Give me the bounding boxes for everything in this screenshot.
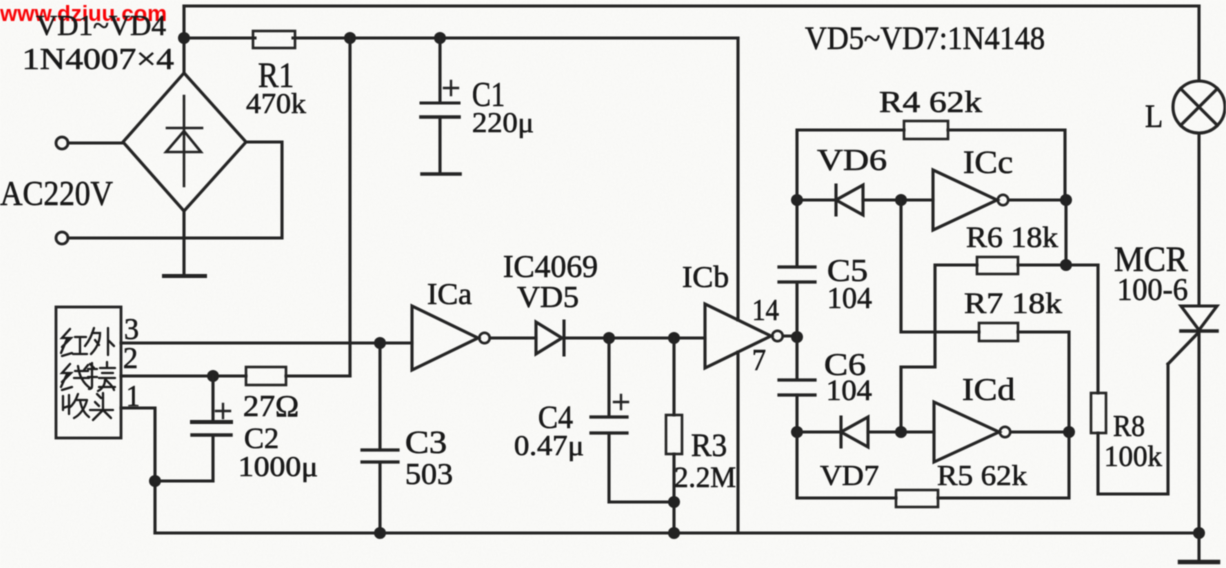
inverter ICd triangle [934, 402, 999, 462]
ground bar under bridge [164, 274, 205, 278]
resistor R5 left lead from C6 node [797, 432, 896, 498]
svg-text:2: 2 [123, 340, 138, 375]
capacitor C4 top lead [607, 338, 610, 416]
wire ICc output [1009, 198, 1066, 201]
node junction thyristor/rail [1193, 527, 1205, 539]
resistor R3 bottom lead [672, 454, 675, 533]
diode VD5 [536, 321, 564, 355]
wire lamp anode drop [1197, 6, 1200, 81]
capacitor C1 plus sign [444, 81, 458, 95]
node junction pin2/C2 [207, 370, 219, 382]
capacitor C3 top lead [378, 343, 381, 450]
capacitor C6 plates [779, 380, 815, 395]
capacitor C1 bottom lead [438, 117, 441, 172]
resistor R6 body [977, 257, 1018, 274]
resistor R3 body [666, 415, 682, 454]
label IR receiver Chinese text [61, 328, 115, 420]
node junction R6/R8 [1060, 259, 1072, 271]
node junction pin3/C3 [374, 337, 386, 349]
node junction VD6/C5/R4 [791, 194, 803, 206]
terminal AC bottom [56, 232, 68, 244]
svg-text:ICd: ICd [962, 371, 1015, 407]
wire AC bottom to bridge right vertex [68, 142, 282, 238]
svg-text:503: 503 [405, 456, 453, 491]
resistor R8 body [1091, 393, 1106, 433]
resistor R7 left lead to ICc input [901, 200, 979, 332]
svg-text:C2: C2 [244, 422, 279, 455]
wire C5 to C6 through output node [795, 282, 798, 379]
node junction C4/R3 bottom [668, 496, 680, 508]
node junction ICd input [895, 426, 907, 438]
node junction bridge/rail [178, 32, 190, 44]
resistor R6 right lead [1018, 263, 1098, 266]
node junction rail/C1 [434, 32, 446, 44]
capacitor C4 plates [591, 417, 627, 433]
diode symbol inside bridge [166, 96, 202, 186]
wire stub below rail [1197, 533, 1200, 560]
char jie (receive) [88, 362, 115, 391]
wire top outer line from bridge to lamp [184, 4, 1199, 7]
wire pin 2 line left [121, 374, 246, 377]
svg-text:14: 14 [752, 292, 779, 327]
wire ICb output [783, 334, 797, 337]
wire pin 1 lead [121, 408, 155, 533]
thyristor MCR triangle [1181, 306, 1217, 330]
svg-text:27Ω: 27Ω [243, 388, 299, 423]
capacitor C3 bottom lead [378, 462, 381, 533]
node junction C3/ground rail [374, 527, 386, 539]
wire ICb pin7 drop to rail [736, 352, 739, 533]
wire ICa output [490, 336, 536, 339]
lamp L circle [1173, 81, 1225, 133]
svg-text:VD6: VD6 [817, 142, 887, 177]
capacitor C2 plates [192, 420, 231, 424]
wire V+ rail right segment [293, 36, 738, 39]
svg-text:ICa: ICa [427, 276, 472, 311]
svg-text:R6 18k: R6 18k [966, 221, 1058, 254]
node junction ICc input [895, 194, 907, 206]
char shou (collect) [63, 394, 89, 418]
node junction R3/ground rail [668, 527, 680, 539]
resistor R7 body [979, 323, 1018, 341]
wire VD7 cathode lead [797, 430, 839, 433]
node junction C4 tap [603, 332, 615, 344]
inverter ICa bubble [479, 333, 489, 343]
capacitor C5 upper lead [795, 200, 798, 266]
svg-text:2.2M: 2.2M [674, 461, 736, 494]
svg-text:100-6: 100-6 [1117, 271, 1188, 307]
svg-text:ICc: ICc [963, 145, 1013, 181]
svg-text:1000μ: 1000μ [238, 452, 318, 483]
resistor R8 bottom lead to gate [1098, 364, 1168, 494]
wire VD5 to ICb input [564, 336, 705, 339]
svg-text:R4 62k: R4 62k [879, 84, 983, 119]
resistor R8 top lead [1096, 265, 1099, 393]
node junction ICd output [1063, 426, 1075, 438]
inverter ICa triangle [412, 306, 478, 370]
terminal AC top [56, 137, 68, 149]
wire VD6 cathode lead [797, 198, 834, 201]
IR receiver box [56, 307, 121, 438]
diode VD7 [841, 417, 868, 447]
svg-text:1N4007×4: 1N4007×4 [22, 41, 175, 76]
diode VD6 [836, 185, 863, 215]
thyristor MCR cathode bar [1181, 329, 1217, 333]
svg-text:R7 18k: R7 18k [964, 287, 1062, 320]
capacitor C2 bottom lead [155, 435, 213, 481]
ground bar below C1 [422, 172, 460, 176]
wire ICb supply pin14 drop [736, 38, 739, 320]
wire ICc output to R6 node [1064, 200, 1067, 265]
capacitor C5 plates [779, 267, 815, 282]
capacitor C4 plus sign [614, 395, 628, 409]
svg-text:100k: 100k [1104, 440, 1162, 473]
svg-text:VD1~VD4: VD1~VD4 [36, 10, 166, 42]
resistor R4 feedback loop left [797, 130, 904, 200]
wire lamp to thyristor anode [1197, 133, 1200, 306]
capacitor C2 top lead [211, 376, 214, 421]
resistor R4 loop right [948, 130, 1065, 200]
inverter ICb bubble [772, 331, 782, 341]
char xian (wire) [61, 364, 94, 390]
capacitor C4 bottom lead [609, 433, 674, 502]
svg-text:R5 62k: R5 62k [937, 460, 1028, 492]
node junction VD7/C6/R5 [791, 426, 803, 438]
wire ICd output [1011, 430, 1069, 433]
capacitor C3 plates [362, 450, 398, 462]
svg-text:0.47μ: 0.47μ [514, 431, 584, 462]
diode bridge VD1~VD4 outline [123, 73, 246, 211]
wire pin 3 signal line [121, 341, 412, 344]
svg-text:R3: R3 [691, 428, 727, 464]
svg-text:VD7: VD7 [820, 460, 879, 492]
ground bar bottom right [1180, 560, 1218, 565]
node junction rail/27ohm riser [344, 32, 356, 44]
wire bridge top lead [182, 6, 185, 73]
resistor R5 body [896, 490, 938, 507]
svg-text:AC220V: AC220V [0, 174, 113, 213]
resistor R6 left lead staircase to ICd input [901, 265, 977, 432]
capacitor C1 top lead [438, 38, 441, 102]
resistor 27ohm [246, 367, 286, 385]
svg-text:VD5: VD5 [517, 279, 579, 314]
node junction pin1/C2 return [149, 475, 161, 487]
inverter ICb triangle [705, 304, 771, 368]
capacitor C1 plates [421, 102, 459, 105]
resistor R4 body [904, 121, 948, 139]
wire bridge bottom to ground [182, 211, 185, 276]
resistor R7 right lead to ICd output [1018, 332, 1069, 432]
wire thyristor cathode to rail [1197, 331, 1200, 533]
char hong (red) [61, 329, 87, 356]
capacitor C6 lower lead [795, 395, 798, 432]
node junction ICb output [791, 331, 803, 343]
wire pin 2 line right of 27ohm [286, 374, 350, 377]
char wai (outside) [85, 328, 114, 355]
wire supply riser to pin2 line [348, 38, 351, 376]
inverter ICd bubble [1000, 427, 1010, 437]
node junction ICc output [1060, 194, 1072, 206]
svg-text:7: 7 [752, 342, 766, 377]
inverter ICc bubble [998, 195, 1008, 205]
char tou (head) [90, 393, 113, 420]
resistor R1 [253, 31, 295, 48]
svg-text:220μ: 220μ [472, 107, 534, 139]
svg-text:470k: 470k [246, 88, 307, 120]
wire VD7 anode to ICd input [868, 430, 934, 433]
wire V+ rail left segment [184, 36, 255, 39]
wire bottom ground rail [155, 531, 1199, 534]
svg-text:L: L [1145, 99, 1163, 135]
inverter ICc triangle [933, 170, 997, 230]
svg-text:ICb: ICb [682, 259, 729, 294]
node junction R3 tap [668, 332, 680, 344]
svg-text:R8: R8 [1113, 408, 1145, 443]
wire AC top to bridge [68, 141, 123, 144]
lamp L cross [1181, 89, 1218, 126]
svg-text:104: 104 [827, 280, 872, 315]
resistor R5 right lead to ICd output [938, 432, 1069, 498]
svg-text:VD5~VD7:1N4148: VD5~VD7:1N4148 [805, 21, 1045, 57]
thyristor MCR gate diagonal [1168, 332, 1199, 364]
svg-text:1: 1 [126, 378, 140, 413]
wire VD6 anode to ICc input [863, 198, 933, 201]
resistor R3 top lead [672, 338, 675, 415]
capacitor C2 plus sign [216, 404, 230, 418]
svg-text:104: 104 [826, 374, 872, 407]
